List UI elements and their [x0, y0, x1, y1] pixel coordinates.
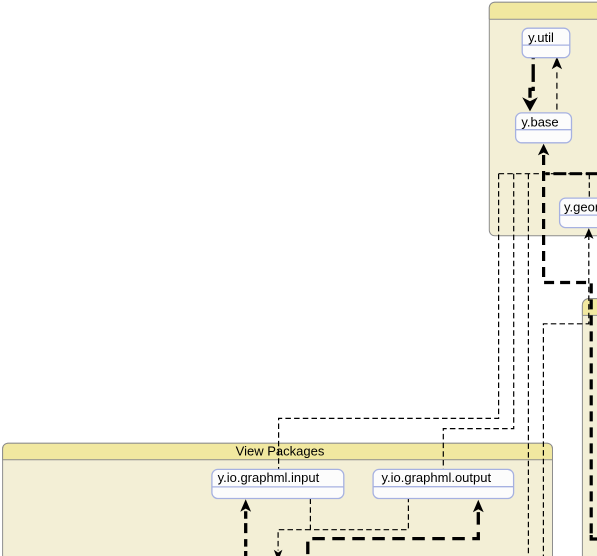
package panel P3 (bottom-right, clipped)	[582, 299, 597, 556]
wire: thin edge to y.geom bottom (from bottom edge)	[543, 234, 588, 556]
wire: thick dashed edge into y.base bottom, down through channel to bottom-right	[544, 155, 592, 534]
wire: thin edge with down arrow x=278.1	[278, 530, 310, 551]
wire: thick dashed edge y.util to y.base (dashes drawn explicitly)	[530, 57, 533, 98]
wire: thin drop x=498.6 routed to y.io.graphml.input top	[279, 174, 499, 470]
svg-text:y.io.graphml.output: y.io.graphml.output	[381, 470, 491, 485]
svg-text:View Packages: View Packages	[236, 444, 325, 459]
node y.base	[516, 113, 572, 143]
arrowhead into y.io.graphml.output bottom (up)	[473, 500, 484, 513]
arrowhead y.base->y.util (up)	[552, 57, 562, 69]
package panel P2 "View Packages" (bottom-left, clipped bottom)	[3, 443, 553, 556]
arrowhead pointing down at bottom edge x=278.1	[274, 550, 283, 556]
arrowhead into y.io.graphml.input bottom (up)	[240, 499, 251, 511]
svg-text:y.base: y.base	[521, 114, 558, 129]
node y.util	[522, 28, 570, 58]
node y.geom (clipped right)	[560, 198, 597, 228]
wire: thin edge y.base to y.util	[556, 70, 558, 113]
svg-text:y.io.graphml.input: y.io.graphml.input	[218, 470, 320, 485]
arrowheads	[240, 57, 593, 556]
arrowhead y.util->y.base (down)	[522, 97, 538, 111]
node y.io.graphml.output	[373, 469, 513, 498]
wire: thin drop x=528.4 off bottom edge	[527, 174, 529, 556]
arrowhead into y.base bottom (up)	[538, 144, 549, 156]
arrowhead into y.geom bottom (up)	[584, 228, 593, 239]
wire: thin dashed channel horizontal y=173.7	[499, 173, 590, 175]
wire: thick dashed channel horizontal y=173.7 exiting right	[546, 172, 597, 175]
wire: thin stub to y.geom top	[588, 174, 590, 198]
package panel P1 (top-right, clipped)	[489, 2, 597, 236]
wire: thin U-link input/output bottoms	[310, 499, 408, 530]
wire: thin drop x=513.7 routed to y.io.graphml.output top	[443, 174, 513, 470]
svg-text:y.geom: y.geom	[564, 199, 597, 214]
svg-text:y.util: y.util	[528, 30, 554, 45]
node y.io.graphml.input	[212, 469, 344, 498]
wire: thick dashed edge into y.io.graphml.output bottom	[308, 512, 479, 556]
wire: thick dashed edge into y.io.graphml.input bottom	[244, 511, 247, 556]
